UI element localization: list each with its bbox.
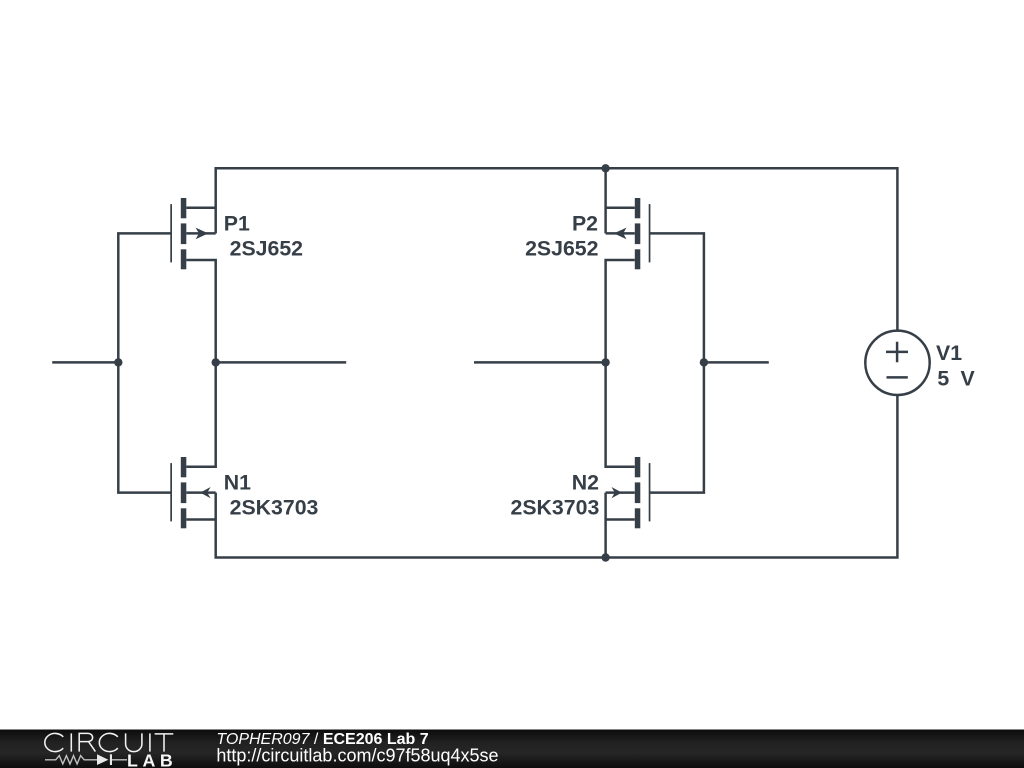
label P2 name	[572, 212, 598, 236]
junction VDD rail / P2 drain riser	[601, 164, 609, 172]
junction input net / gate column 1	[114, 358, 122, 366]
footer bar background	[0, 730, 1024, 768]
pmos P2 symbol	[606, 198, 651, 467]
CircuitLab logo text CIRCUIT	[45, 733, 174, 751]
svg-text:P2: P2	[572, 212, 598, 236]
junction output node inverter 2	[601, 358, 609, 366]
wire stub into inverter 2 output node	[474, 361, 606, 364]
junction gate column 2 / input stub	[700, 358, 708, 366]
junction bottom rail / N2 source	[601, 553, 609, 561]
wire input stub inverter 2	[704, 361, 769, 364]
CircuitLab logo diode	[97, 754, 127, 765]
voltage source V1	[865, 331, 929, 395]
wire input net A: left stub to gate column	[52, 361, 118, 364]
CircuitLab logo resistor zigzag	[45, 756, 97, 764]
label P2 value 2SJ652	[525, 236, 598, 260]
label N2 value 2SK3703	[510, 495, 599, 519]
svg-text:P1: P1	[224, 212, 250, 236]
label V1 value 5 V	[937, 367, 977, 391]
label N2 name	[572, 471, 599, 495]
wire gate column inverter 2 (P2 gate to N2 gate)	[650, 233, 704, 492]
wire gate column inverter 1 (P1 gate to N1 gate)	[118, 233, 171, 492]
svg-text:N2: N2	[572, 471, 599, 495]
svg-text:2SJ652: 2SJ652	[525, 236, 598, 260]
footer url http://circuitlab.com/c97f58uq4x5se	[216, 746, 498, 766]
svg-text:2SJ652: 2SJ652	[230, 236, 303, 260]
junction output node inverter 1	[212, 358, 220, 366]
label N1 value 2SK3703	[230, 495, 319, 519]
wire bottom rail with N1-side riser and V1 bottom lead	[216, 395, 898, 558]
svg-text:5 V: 5 V	[937, 367, 977, 391]
svg-text:N1: N1	[224, 471, 251, 495]
CircuitLab logo text LAB	[127, 751, 177, 768]
label P1 name	[224, 212, 250, 236]
svg-text:http://circuitlab.com/c97f58uq: http://circuitlab.com/c97f58uq4x5se	[216, 746, 498, 766]
wire VDD top rail with P1-side riser and V1 top lead	[216, 168, 898, 331]
svg-text:V1: V1	[936, 341, 962, 365]
pmos P1 symbol	[170, 198, 215, 467]
label V1 name	[936, 341, 962, 365]
nmos N2 symbol	[606, 457, 651, 528]
wire N2 source to bottom rail	[604, 493, 607, 559]
wire P2/N2 drain riser top (VDD to P2)	[604, 167, 607, 233]
svg-text:LAB: LAB	[127, 751, 177, 768]
label P1 value 2SJ652	[230, 236, 303, 260]
nmos N1 symbol	[170, 457, 215, 528]
label N1 name	[224, 471, 251, 495]
wire output stub inverter 1	[216, 361, 347, 364]
footer title TOPHER097 / ECE206 Lab 7	[216, 731, 428, 748]
svg-text:2SK3703: 2SK3703	[230, 495, 319, 519]
svg-text:2SK3703: 2SK3703	[510, 495, 599, 519]
